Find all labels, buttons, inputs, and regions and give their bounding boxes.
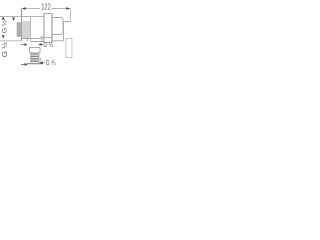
sleeve block (light grey) <box>22 21 31 39</box>
extension line right (x=70.5) <box>70 9 72 22</box>
leader G 3/4: tail right <box>42 62 44 64</box>
handle skirt outline <box>52 22 71 41</box>
main body bottom edge <box>31 41 45 43</box>
svg-text:G ½: G ½ <box>43 40 53 49</box>
small down arrow at wall face <box>12 18 15 22</box>
main body left edge <box>30 17 32 42</box>
lever rect (lower right) <box>66 39 72 58</box>
dimension line "122" (top, horizontal) <box>22 8 70 10</box>
leader G 3/4: arrowhead right-pointing <box>24 63 27 66</box>
handle grip (rounded) <box>52 18 63 35</box>
extension line top-left / body top edge (y=16.5) <box>0 16 44 18</box>
leader G 1/2: arrowhead left-pointing <box>38 43 41 46</box>
escutcheon left edge <box>43 14 45 43</box>
svg-text:G ½: G ½ <box>1 20 9 33</box>
arrowhead down, left vertical dimension <box>2 35 5 38</box>
arrowhead left of dim 122 <box>22 7 26 10</box>
flange line <box>27 63 44 65</box>
in-wall body block (dark grey) <box>17 23 22 37</box>
escutcheon right edge <box>51 14 53 43</box>
escutcheon tall rect <box>44 14 52 43</box>
svg-text:G ¾: G ¾ <box>46 58 57 67</box>
union nut <box>30 48 41 53</box>
extension line bottom-left (y=40.8) <box>0 40 22 42</box>
svg-text:G ½: G ½ <box>1 42 9 57</box>
outlet stub arch <box>41 37 43 41</box>
leader G 1/2: arrowhead right-pointing <box>24 43 27 46</box>
leader G 3/4: arrowhead left-pointing <box>39 61 42 64</box>
extension stub at pipe outlet <box>39 58 41 61</box>
leader G 1/2: tail right <box>41 44 43 46</box>
escutcheon inner line <box>44 37 52 39</box>
arrowhead up, left vertical dimension <box>2 17 5 20</box>
pipe side walls <box>31 53 40 63</box>
wall line (x=21.5) <box>21 9 23 41</box>
threaded pipe body <box>31 53 40 63</box>
thread stripes <box>31 54 39 61</box>
arrowhead right of dim 122 <box>66 7 70 10</box>
sleeve bottom edge with stub <box>22 39 41 42</box>
leader G 1/2: tail left <box>21 44 24 46</box>
svg-text:122: 122 <box>41 2 51 12</box>
leader G 3/4: tail left <box>21 64 24 66</box>
